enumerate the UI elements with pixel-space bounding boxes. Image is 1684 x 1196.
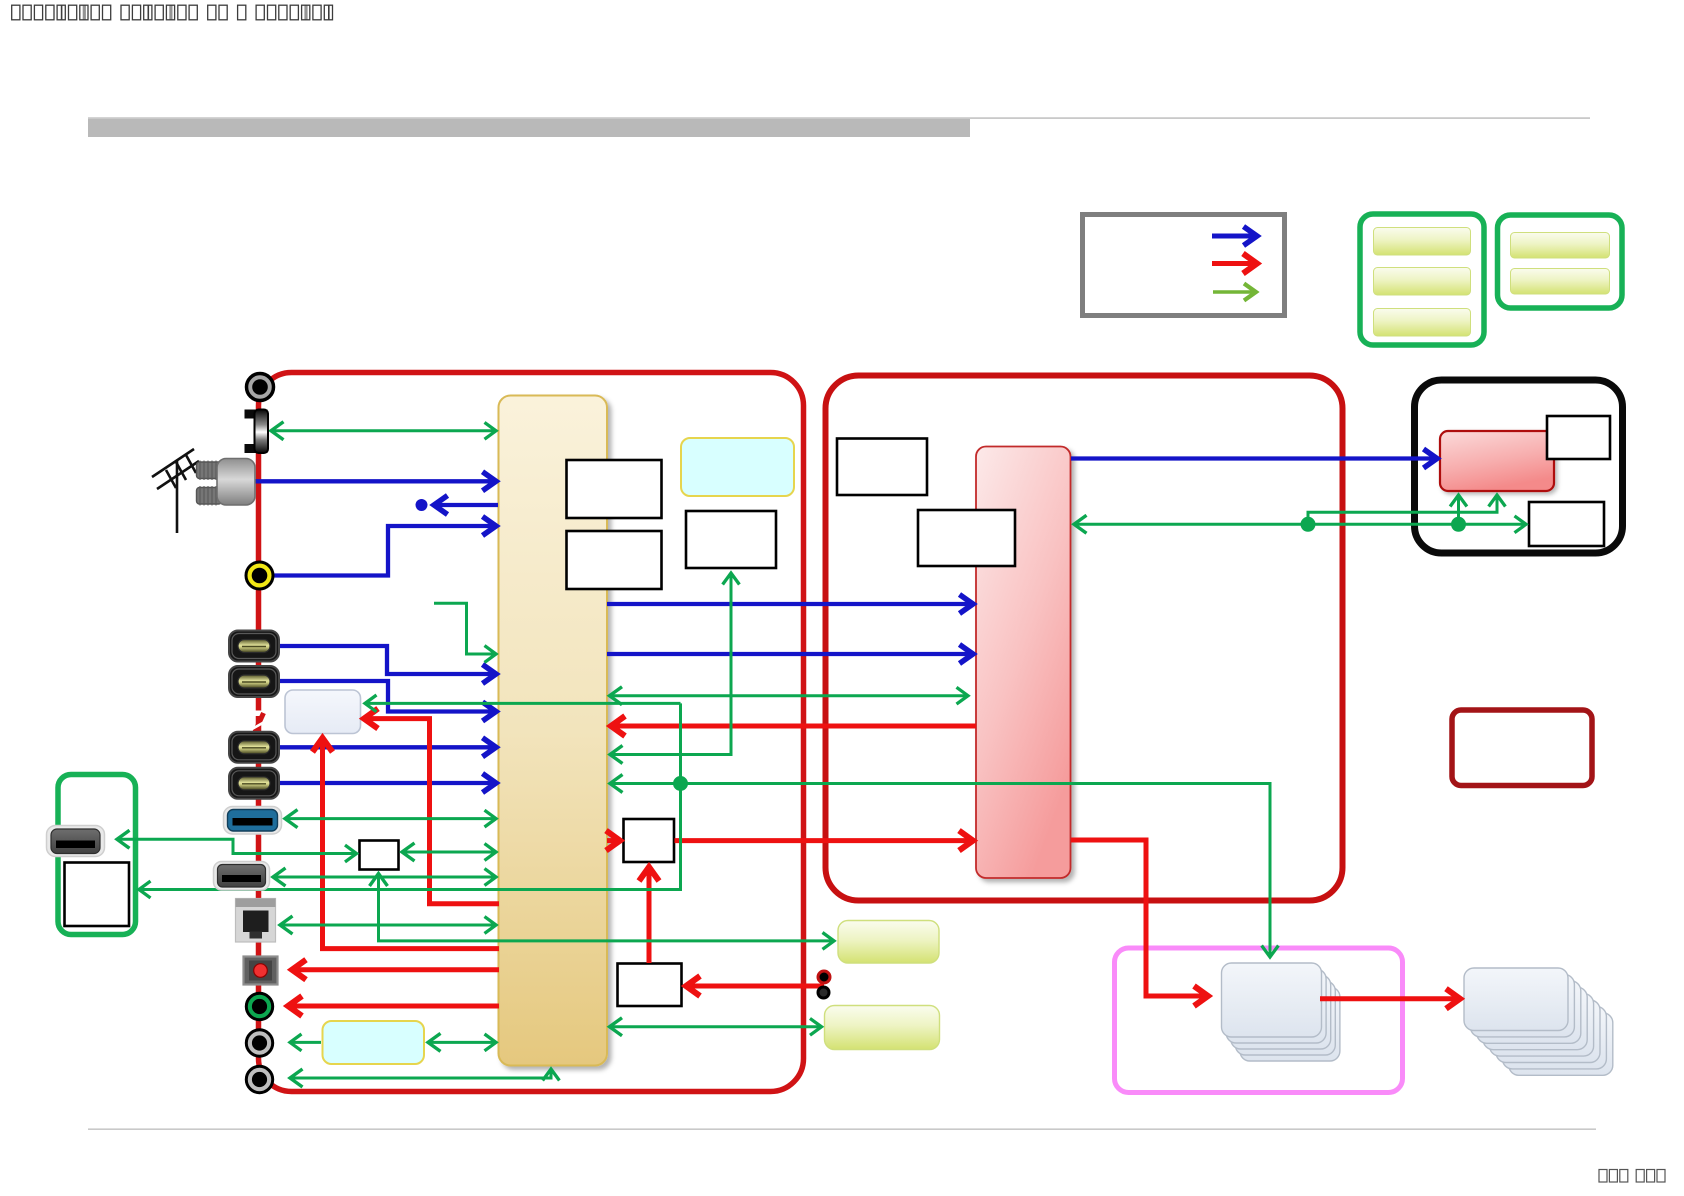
cyan box bottom (323, 1021, 425, 1064)
light green bar 1 (838, 921, 939, 964)
wire red main-to-tuner upper (364, 719, 499, 904)
second unit container (right, red rounded) (826, 376, 1343, 901)
node green dot right (1451, 517, 1466, 532)
wire green to tuner box (365, 702, 681, 705)
connector gray RCA 2 (246, 1066, 272, 1092)
wire green USB-A elbow (117, 839, 357, 853)
wire green W3 elbow (610, 573, 731, 755)
connector antenna F-type (197, 459, 256, 506)
connector optical audio (244, 957, 278, 985)
white box WD (right container mid) (918, 510, 1015, 566)
connector HDMI 3 (229, 732, 279, 763)
white box W3 (686, 511, 776, 568)
wire blue HDMI1 in (278, 646, 496, 674)
bottom pink container (1115, 948, 1403, 1093)
wire blue HDMI2 in (278, 681, 496, 712)
connector headphone bracket (245, 410, 269, 454)
panel driver block (red gradient, inside black container) (1440, 431, 1554, 491)
connector black RCA (top) (247, 374, 274, 401)
wire green main-pink link (610, 694, 969, 697)
dark red outlined box (1452, 710, 1592, 786)
wire blue antenna RF in (252, 479, 496, 483)
connector gray RCA 1 (246, 1030, 272, 1056)
footer rule (88, 1128, 1596, 1130)
secondary processor block (pink) (976, 447, 1071, 879)
wire green elbow into main top (434, 603, 496, 654)
legend green arrow (1213, 290, 1256, 294)
header title placeholder glyph row (12, 5, 333, 20)
wire green main-bar2 link (610, 1025, 822, 1028)
wire green cyan-main link (428, 1041, 496, 1044)
wire green USB2 link (273, 876, 496, 879)
wire blue stub with dot (434, 503, 498, 507)
white box W1 (left container upper) (567, 460, 662, 518)
wire green RCA2 elbow to main bottom (290, 1069, 551, 1078)
wire red main-to-tuner lower (323, 738, 500, 949)
wire red WA-to-pink (675, 838, 974, 843)
white box inside green IO box (65, 863, 130, 927)
wire green cyan-to-RCA (290, 1041, 321, 1044)
legend blue arrow (1212, 234, 1257, 239)
white box WK2 (in black container) (1529, 502, 1604, 546)
wire green trunk down-left to IO box (139, 703, 681, 889)
wire green main-smallbox link (402, 851, 496, 854)
wire red WB-to-WA (647, 867, 652, 963)
wire red jack-to-WB (686, 984, 824, 989)
jack red-ring mini (818, 971, 830, 983)
display unit container (black rounded) (1415, 380, 1623, 553)
wire blue main-to-pink upper (607, 602, 973, 606)
wire green LAN link (280, 924, 496, 927)
connector green RCA (246, 993, 272, 1019)
wire break mark on left container edge (251, 711, 269, 734)
antenna symbol (152, 449, 199, 533)
wire red pink-to-cards (1071, 840, 1208, 996)
white box WA (small, video path) (624, 819, 675, 862)
white box W2 (left container lower) (567, 531, 662, 589)
node green junction dot (673, 776, 688, 791)
cyan box top (681, 438, 794, 496)
connector yellow RCA (246, 562, 273, 589)
wire red main-to-WA (607, 838, 620, 843)
node blue stub dot (416, 499, 428, 511)
wire red analog audio out (288, 1004, 499, 1009)
header thin rule (88, 117, 1590, 119)
connector HDMI 2 (229, 666, 279, 697)
header gray title bar (88, 119, 970, 137)
connector HDMI 4 (229, 768, 279, 799)
white box WK1 (in black container) (1547, 416, 1610, 459)
legend red arrow (1212, 261, 1257, 266)
pale blue tuner box (285, 690, 361, 734)
wire red cards-to-cards2 (1320, 996, 1460, 1001)
wire blue HDMI3 in (278, 745, 496, 749)
white box WB (lower) (618, 964, 682, 1007)
main processor block (tan) (499, 396, 608, 1066)
node green dot left (1301, 517, 1316, 532)
wire blue composite video in (262, 526, 496, 576)
wire blue HDMI4 in (278, 781, 496, 785)
main unit container (left, red rounded) (259, 373, 804, 1092)
wire green display branch 2 (1457, 495, 1460, 524)
connector USB blue (224, 807, 282, 835)
connector USB-A in green IO box (47, 826, 105, 857)
green list box 2 (1498, 215, 1623, 308)
card stack bottom right (1464, 968, 1613, 1075)
wire blue main-to-pink lower (607, 652, 973, 656)
wire green smallbox-to-bar1 (379, 874, 835, 941)
connector USB 2 (214, 862, 270, 891)
wire red optical audio out (292, 967, 499, 972)
wire green display branch 1 (1308, 495, 1497, 524)
white box small (USB hub) (360, 841, 399, 870)
wire green display link main (1074, 523, 1526, 526)
white box WC (right container upper-left) (837, 439, 927, 496)
legend box (1083, 215, 1285, 316)
connector LAN RJ45 (236, 899, 276, 943)
wire green headphone link (271, 429, 496, 432)
jack black-ring mini (818, 987, 829, 998)
wire blue pink-to-display (1071, 456, 1437, 460)
footer page-number glyphs (1599, 1170, 1665, 1183)
wire green USB-blue link (285, 817, 496, 820)
wire green main bus to cards (610, 784, 1270, 958)
card stack inside pink container (1222, 963, 1340, 1061)
green list box 1 (1360, 214, 1484, 345)
connector HDMI 1 (229, 631, 279, 662)
left green IO box (58, 775, 136, 935)
light green bar 2 (825, 1006, 940, 1050)
wire red pink-to-main return (611, 724, 976, 729)
